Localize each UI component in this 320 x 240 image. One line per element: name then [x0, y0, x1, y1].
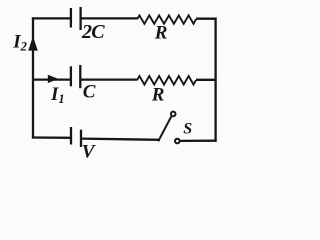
wire: top branch, capacitor 2C to resistor R1: [81, 17, 137, 19]
current arrow I1 (rightward on middle branch): [48, 75, 59, 83]
svg-text:S: S: [183, 121, 192, 138]
svg-text:I2: I2: [12, 32, 27, 54]
switch S (open knife switch): [158, 112, 179, 144]
battery V: [71, 127, 81, 147]
wire: middle branch, capacitor C to resistor R2: [80, 78, 137, 80]
capacitor C1 value 2C: [71, 7, 81, 30]
capacitor C2 value C: [71, 65, 80, 88]
svg-text:C: C: [83, 81, 96, 102]
svg-text:V: V: [82, 142, 96, 161]
resistor R2 (middle R): [137, 76, 196, 85]
wire: middle branch, left bus to arrow and capacitor C: [32, 78, 71, 80]
svg-text:2C: 2C: [81, 21, 105, 43]
wire: top branch, resistor R1 to right bus: [196, 18, 217, 20]
wire: bottom branch, switch S to right bus: [180, 140, 216, 142]
wire: left vertical bus: [32, 17, 34, 138]
wire: middle branch, resistor R2 to right bus: [196, 79, 217, 81]
svg-text:R: R: [151, 85, 165, 106]
current arrow I2 (upward on left bus): [28, 36, 38, 50]
wire: bottom branch, battery V to switch S: [81, 139, 160, 140]
wire: top branch, left segment to capacitor 2C: [32, 17, 71, 19]
svg-text:I1: I1: [50, 84, 65, 106]
wire: right vertical bus: [214, 18, 216, 142]
resistor R1 (top R): [137, 15, 196, 23]
svg-text:R: R: [154, 23, 168, 44]
wire: bottom branch, left bus to battery V: [32, 136, 71, 139]
